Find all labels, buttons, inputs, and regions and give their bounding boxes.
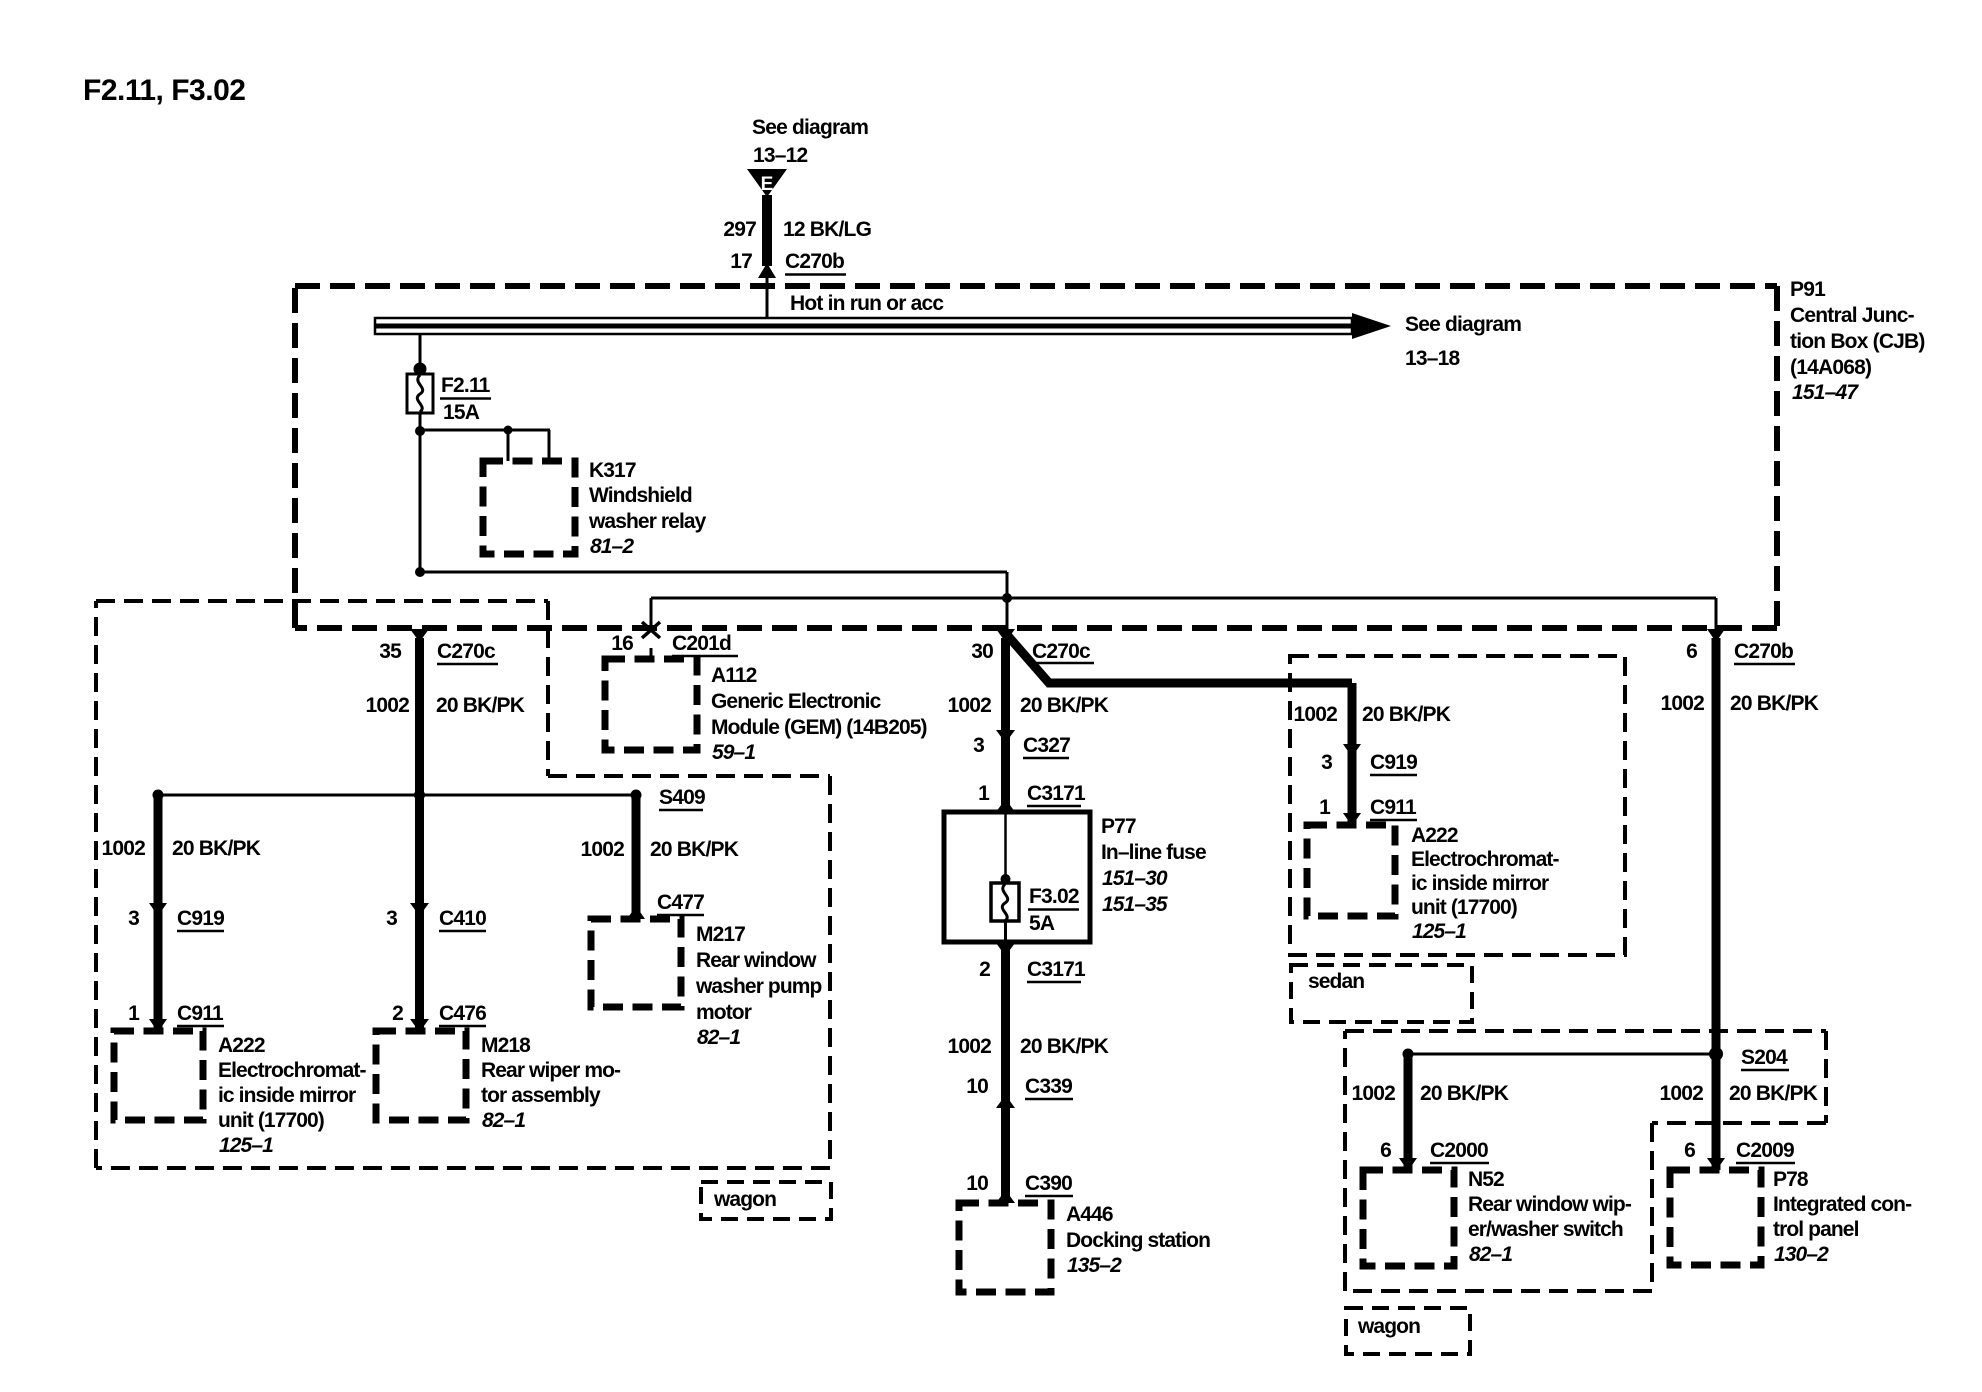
svg-text:6: 6 — [1686, 640, 1697, 663]
svg-text:6: 6 — [1684, 1139, 1695, 1162]
svg-text:wagon: wagon — [713, 1188, 776, 1211]
wire vertical x1007 — [1006, 572, 1009, 630]
svg-text:F2.11, F3.02: F2.11, F3.02 — [83, 74, 245, 107]
svg-text:10: 10 — [966, 1172, 988, 1195]
svg-text:35: 35 — [379, 640, 402, 663]
svg-text:Rear window wip-: Rear window wip- — [1468, 1193, 1632, 1216]
svg-text:F2.11: F2.11 — [441, 374, 491, 397]
svg-text:Central Junc-: Central Junc- — [1790, 304, 1915, 327]
svg-text:C919: C919 — [1370, 751, 1417, 774]
wire drop to C201d — [650, 598, 653, 632]
connector C476 pin 2 (arrow down) — [410, 1019, 429, 1032]
svg-text:81–2: 81–2 — [590, 535, 634, 558]
svg-text:1002: 1002 — [1293, 703, 1337, 726]
svg-text:20 BK/PK: 20 BK/PK — [1730, 692, 1819, 715]
wagon group box (left, stepped) — [96, 601, 830, 1168]
svg-text:tor assembly: tor assembly — [481, 1084, 601, 1107]
power symbol E (triangle) — [747, 169, 787, 197]
svg-text:1: 1 — [1319, 796, 1331, 819]
svg-text:Electrochromat-: Electrochromat- — [218, 1059, 366, 1082]
rear wiper motor M218 dashed box — [376, 1031, 466, 1120]
in-line fuse P77 box — [944, 812, 1090, 942]
svg-text:1002: 1002 — [365, 694, 409, 717]
svg-text:P77: P77 — [1101, 815, 1136, 838]
svg-text:C3171: C3171 — [1027, 782, 1086, 805]
svg-text:1: 1 — [128, 1002, 140, 1025]
wire inside P77 — [1004, 814, 1007, 880]
wagon label box (bottom right) — [1346, 1308, 1470, 1354]
svg-text:S204: S204 — [1741, 1046, 1788, 1069]
node mid — [414, 790, 425, 801]
svg-text:In–line fuse: In–line fuse — [1101, 841, 1206, 864]
wire bus to fuse F2.11 — [419, 334, 422, 367]
svg-text:C270b: C270b — [1734, 640, 1793, 663]
washer pump M217 dashed box — [591, 919, 681, 1007]
svg-text:See diagram: See diagram — [752, 116, 868, 139]
svg-text:C270c: C270c — [1032, 640, 1091, 663]
wire fuse to box bottom — [1004, 921, 1007, 942]
wire S409 down to M217 — [632, 795, 641, 919]
sedan group box (right) — [1290, 656, 1625, 955]
node left end — [153, 790, 164, 801]
svg-text:C270b: C270b — [785, 250, 844, 273]
wire horizontal y572 to x1007 — [420, 571, 1007, 574]
wire diagonal branch to right — [1008, 636, 1352, 683]
svg-text:ic inside mirror: ic inside mirror — [218, 1084, 356, 1107]
wire stub into A112 — [650, 648, 653, 662]
svg-text:C201d: C201d — [672, 632, 731, 655]
svg-text:3: 3 — [386, 907, 397, 930]
connector C2000 pin 6 (arrow down) — [1399, 1158, 1417, 1171]
svg-text:20 BK/PK: 20 BK/PK — [1729, 1082, 1818, 1105]
wire horizontal splice y795 — [158, 794, 636, 797]
svg-text:washer relay: washer relay — [588, 510, 707, 533]
connector C3171 pin 2 (arrow down) — [996, 943, 1015, 956]
svg-text:82–1: 82–1 — [482, 1109, 525, 1132]
control panel P78 dashed box — [1670, 1170, 1761, 1265]
wire main column down — [419, 431, 422, 574]
svg-text:P91: P91 — [1790, 278, 1826, 301]
svg-text:P78: P78 — [1773, 1168, 1809, 1191]
svg-text:1002: 1002 — [1660, 692, 1704, 715]
svg-text:1002: 1002 — [947, 1035, 991, 1058]
svg-text:15A: 15A — [443, 401, 480, 424]
svg-text:N52: N52 — [1468, 1168, 1504, 1191]
wire right branch down to A222 — [1348, 683, 1357, 825]
svg-text:S409: S409 — [659, 786, 705, 809]
svg-text:20 BK/PK: 20 BK/PK — [1362, 703, 1451, 726]
svg-text:59–1: 59–1 — [712, 741, 755, 764]
connector C3171 pin 1 (fork up) — [996, 799, 1015, 812]
svg-text:washer pump: washer pump — [695, 975, 822, 998]
svg-text:Docking station: Docking station — [1066, 1229, 1210, 1252]
sedan label box — [1291, 965, 1472, 1022]
connector C270b pin 17 (arrow up) — [758, 263, 776, 278]
connector C911 pin 1 (arrow down) — [149, 1019, 167, 1032]
connector C477 (fork up) — [627, 906, 645, 919]
svg-text:(14A068): (14A068) — [1790, 356, 1871, 379]
svg-text:1002: 1002 — [1351, 1082, 1395, 1105]
connector C327 pin 3 (arrow down) — [996, 730, 1015, 743]
svg-text:3: 3 — [1321, 751, 1332, 774]
svg-text:A222: A222 — [218, 1034, 265, 1057]
svg-text:C2009: C2009 — [1736, 1139, 1794, 1162]
splice S204 wire — [1408, 1053, 1716, 1056]
svg-text:12 BK/LG: 12 BK/LG — [783, 218, 872, 241]
svg-text:Rear wiper mo-: Rear wiper mo- — [481, 1059, 621, 1082]
connector C270c pin 30 (arrow down) — [996, 629, 1015, 642]
svg-text:20 BK/PK: 20 BK/PK — [1020, 1035, 1109, 1058]
svg-text:C911: C911 — [1370, 796, 1417, 819]
wire drop to C270b-6 — [1715, 598, 1718, 630]
svg-text:297: 297 — [723, 218, 756, 241]
bus bar Hot in run or acc — [375, 313, 1391, 339]
wire junction to K317 — [418, 429, 550, 432]
svg-text:5A: 5A — [1029, 912, 1055, 935]
svg-text:wagon: wagon — [1357, 1315, 1420, 1338]
wagon group box (bottom right, stepped) — [1345, 1031, 1826, 1291]
svg-text:82–1: 82–1 — [1469, 1243, 1512, 1266]
connector C339 pin 10 (fork up) — [996, 1095, 1015, 1108]
node S204 right — [1709, 1047, 1723, 1061]
svg-text:M218: M218 — [481, 1034, 531, 1057]
svg-text:C477: C477 — [657, 891, 704, 914]
svg-text:ic inside mirror: ic inside mirror — [1411, 872, 1549, 895]
wire C270c down (thick) — [415, 638, 424, 1031]
wire fuse to junction — [419, 413, 422, 435]
svg-text:13–12: 13–12 — [753, 144, 808, 167]
wire C270b-6 down to P78 — [1712, 638, 1721, 1170]
node at (1007,598) — [1002, 593, 1012, 603]
fuse F3.02 5A — [991, 883, 1019, 921]
svg-text:C410: C410 — [439, 907, 486, 930]
svg-text:Hot in run or acc: Hot in run or acc — [790, 292, 944, 315]
svg-text:16: 16 — [611, 632, 633, 655]
svg-text:M217: M217 — [696, 923, 745, 946]
svg-text:Integrated con-: Integrated con- — [1773, 1193, 1912, 1216]
relay K317 dashed box — [483, 461, 575, 554]
wire horizontal y598 — [651, 597, 1716, 600]
svg-text:sedan: sedan — [1308, 970, 1364, 993]
svg-text:C270c: C270c — [437, 640, 496, 663]
svg-text:1002: 1002 — [101, 837, 145, 860]
svg-text:unit (17700): unit (17700) — [1411, 896, 1517, 919]
svg-text:13–18: 13–18 — [1405, 347, 1461, 370]
svg-text:1002: 1002 — [947, 694, 991, 717]
svg-text:Module (GEM) (14B205): Module (GEM) (14B205) — [711, 716, 927, 739]
svg-text:151–35: 151–35 — [1102, 893, 1168, 916]
svg-text:C390: C390 — [1025, 1172, 1072, 1195]
svg-text:17: 17 — [730, 250, 752, 273]
connector C270c pin 35 (arrow down) — [410, 629, 429, 642]
svg-text:tion Box (CJB): tion Box (CJB) — [1790, 330, 1925, 353]
svg-text:2: 2 — [392, 1002, 403, 1025]
svg-text:trol panel: trol panel — [1773, 1218, 1859, 1241]
svg-text:3: 3 — [973, 734, 984, 757]
svg-text:See diagram: See diagram — [1405, 313, 1521, 336]
svg-text:151–47: 151–47 — [1792, 381, 1859, 404]
module A112 dashed box — [605, 659, 697, 750]
svg-text:Windshield: Windshield — [589, 484, 692, 507]
wire N52 branch down — [1404, 1054, 1413, 1170]
svg-text:82–1: 82–1 — [697, 1026, 740, 1049]
svg-text:K317: K317 — [589, 459, 636, 482]
svg-text:6: 6 — [1380, 1139, 1391, 1162]
svg-text:C919: C919 — [177, 907, 224, 930]
wire C270c-30 down to P77 — [1001, 638, 1010, 812]
svg-text:A446: A446 — [1066, 1203, 1113, 1226]
connector C911 pin 1 right (arrow down) — [1343, 813, 1361, 826]
svg-text:motor: motor — [696, 1001, 752, 1024]
svg-text:A222: A222 — [1411, 824, 1458, 847]
svg-text:20 BK/PK: 20 BK/PK — [1420, 1082, 1509, 1105]
fuse F2.11 15A — [407, 363, 433, 414]
connector C410 pin 3 (arrow down) — [410, 903, 429, 916]
svg-text:C339: C339 — [1025, 1075, 1072, 1098]
svg-text:1002: 1002 — [580, 838, 624, 861]
svg-text:125–1: 125–1 — [1412, 920, 1466, 943]
wagon label box (left) — [701, 1182, 831, 1219]
svg-text:3: 3 — [128, 907, 139, 930]
mirror unit A222 dashed box (left) — [114, 1031, 203, 1120]
connector C201d pin 16 (x symbol) — [642, 622, 660, 638]
connector C270b pin 6 (arrow down) — [1707, 629, 1725, 642]
svg-text:er/washer switch: er/washer switch — [1468, 1218, 1623, 1241]
node junction below fuse — [415, 426, 425, 436]
P91 Central Junction Box (CJB) dashed outline — [295, 286, 1777, 628]
connector C2009 pin 6 (arrow down) — [1707, 1158, 1725, 1171]
svg-text:C476: C476 — [439, 1002, 486, 1025]
svg-text:unit (17700): unit (17700) — [218, 1109, 324, 1132]
svg-text:1: 1 — [978, 782, 990, 805]
connector C919 pin 3 (arrow down) — [149, 903, 167, 916]
wire into CJB — [766, 278, 769, 319]
connector C390 pin 10 (fork up) — [996, 1190, 1015, 1203]
svg-text:20 BK/PK: 20 BK/PK — [650, 838, 739, 861]
mirror unit A222 dashed box (right) — [1307, 825, 1395, 916]
svg-text:A112: A112 — [711, 664, 757, 687]
svg-text:135–2: 135–2 — [1067, 1254, 1122, 1277]
svg-text:Generic Electronic: Generic Electronic — [711, 690, 882, 713]
docking station A446 dashed box — [959, 1203, 1051, 1292]
svg-text:C2000: C2000 — [1430, 1139, 1488, 1162]
svg-text:E: E — [761, 174, 774, 195]
svg-text:130–2: 130–2 — [1774, 1243, 1829, 1266]
svg-text:1002: 1002 — [1659, 1082, 1703, 1105]
wire P77 down to A446 — [1001, 943, 1010, 1203]
svg-text:10: 10 — [966, 1075, 988, 1098]
svg-text:125–1: 125–1 — [219, 1134, 273, 1157]
svg-text:2: 2 — [979, 958, 990, 981]
svg-text:C3171: C3171 — [1027, 958, 1086, 981]
svg-text:20 BK/PK: 20 BK/PK — [172, 837, 261, 860]
wire left branch down — [154, 795, 163, 1031]
node S204 left — [1403, 1049, 1414, 1060]
svg-text:C327: C327 — [1023, 734, 1070, 757]
wire 12 BK/LG from E — [762, 195, 772, 266]
svg-text:F3.02: F3.02 — [1029, 885, 1079, 908]
svg-text:151–30: 151–30 — [1102, 867, 1168, 890]
svg-text:C911: C911 — [177, 1002, 224, 1025]
svg-text:Electrochromat-: Electrochromat- — [1411, 848, 1559, 871]
svg-text:30: 30 — [971, 640, 993, 663]
svg-text:20 BK/PK: 20 BK/PK — [1020, 694, 1109, 717]
node S409 — [631, 790, 642, 801]
svg-text:Rear window: Rear window — [696, 949, 817, 972]
switch N52 dashed box — [1363, 1170, 1454, 1266]
connector C919 pin 3 right (arrow down) — [1343, 744, 1361, 757]
node at y572 — [415, 567, 425, 577]
svg-text:20 BK/PK: 20 BK/PK — [436, 694, 525, 717]
